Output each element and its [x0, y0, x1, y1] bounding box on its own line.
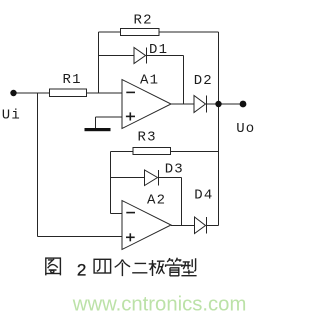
caption: 图 2 四个二极管型 [46, 258, 197, 276]
svg-text:D1: D1 [149, 42, 168, 58]
wire left rail down from input junction [37, 93, 39, 237]
caption glyph 四 [94, 259, 111, 273]
wire R1 to A1 inverting input [87, 92, 123, 94]
svg-text:R3: R3 [138, 130, 157, 146]
op-amp A1 [122, 80, 171, 129]
diode D2 [194, 96, 207, 113]
svg-text:D4: D4 [194, 188, 213, 204]
resistor R3 [133, 148, 171, 155]
node output junction [215, 101, 221, 107]
resistor R1 [50, 89, 87, 97]
svg-text:www.cntronics.com: www.cntronics.com [72, 294, 247, 316]
svg-text:A1: A1 [140, 73, 159, 89]
wire to D3 anode [111, 177, 145, 179]
wire output rail vertical [218, 32, 220, 226]
wire D3 cathode run [159, 177, 182, 179]
caption glyph 个 [115, 260, 130, 277]
wire A2 inverting input [111, 213, 123, 215]
diode D4 [195, 217, 207, 234]
resistor R2 [121, 29, 160, 36]
svg-text:R2: R2 [134, 13, 153, 29]
wire D4 cathode to output rail [207, 225, 219, 227]
node input terminal [10, 90, 16, 96]
svg-text:A2: A2 [147, 193, 166, 209]
wire to R2 left [99, 31, 121, 33]
svg-text:R1: R1 [63, 72, 82, 88]
wire lower feedback rail [110, 152, 112, 214]
svg-text:D2: D2 [194, 73, 213, 89]
wire D1 drop to A1 output [183, 56, 185, 105]
caption glyph 二 [132, 263, 147, 272]
svg-text:Uo: Uo [236, 121, 255, 137]
wire R2 right to output rail [159, 31, 219, 33]
wire D1 cathode run [147, 55, 184, 57]
wire R3 right to output rail [171, 151, 219, 153]
op-amp A2 [122, 201, 171, 250]
wire A2 output to D4 anode [171, 225, 195, 227]
diode D1 [134, 48, 147, 64]
caption glyph 管 [166, 258, 182, 276]
svg-text:Ui: Ui [2, 107, 21, 123]
ground [85, 128, 111, 131]
diode D3 [145, 170, 159, 186]
wire D3 drop to A2 output [181, 178, 183, 226]
wire A1 output to D2 anode [171, 103, 194, 105]
svg-text:D3: D3 [165, 162, 184, 178]
caption glyph 极 [149, 260, 165, 276]
wire feedback rail up from A1 input node [98, 32, 100, 93]
svg-text:2: 2 [77, 261, 86, 280]
wire A1 non-inverting input to ground [96, 116, 123, 118]
node output terminal [240, 101, 247, 108]
caption glyph 图 [46, 258, 61, 275]
caption glyph 型 [181, 258, 196, 275]
wire input to R1 [13, 92, 50, 94]
wire bottom run to A2 non-inverting input [38, 236, 123, 238]
wire to R3 left [111, 151, 134, 153]
wire D2 cathode to Uo terminal [207, 103, 244, 105]
wire to D1 anode [99, 55, 135, 57]
